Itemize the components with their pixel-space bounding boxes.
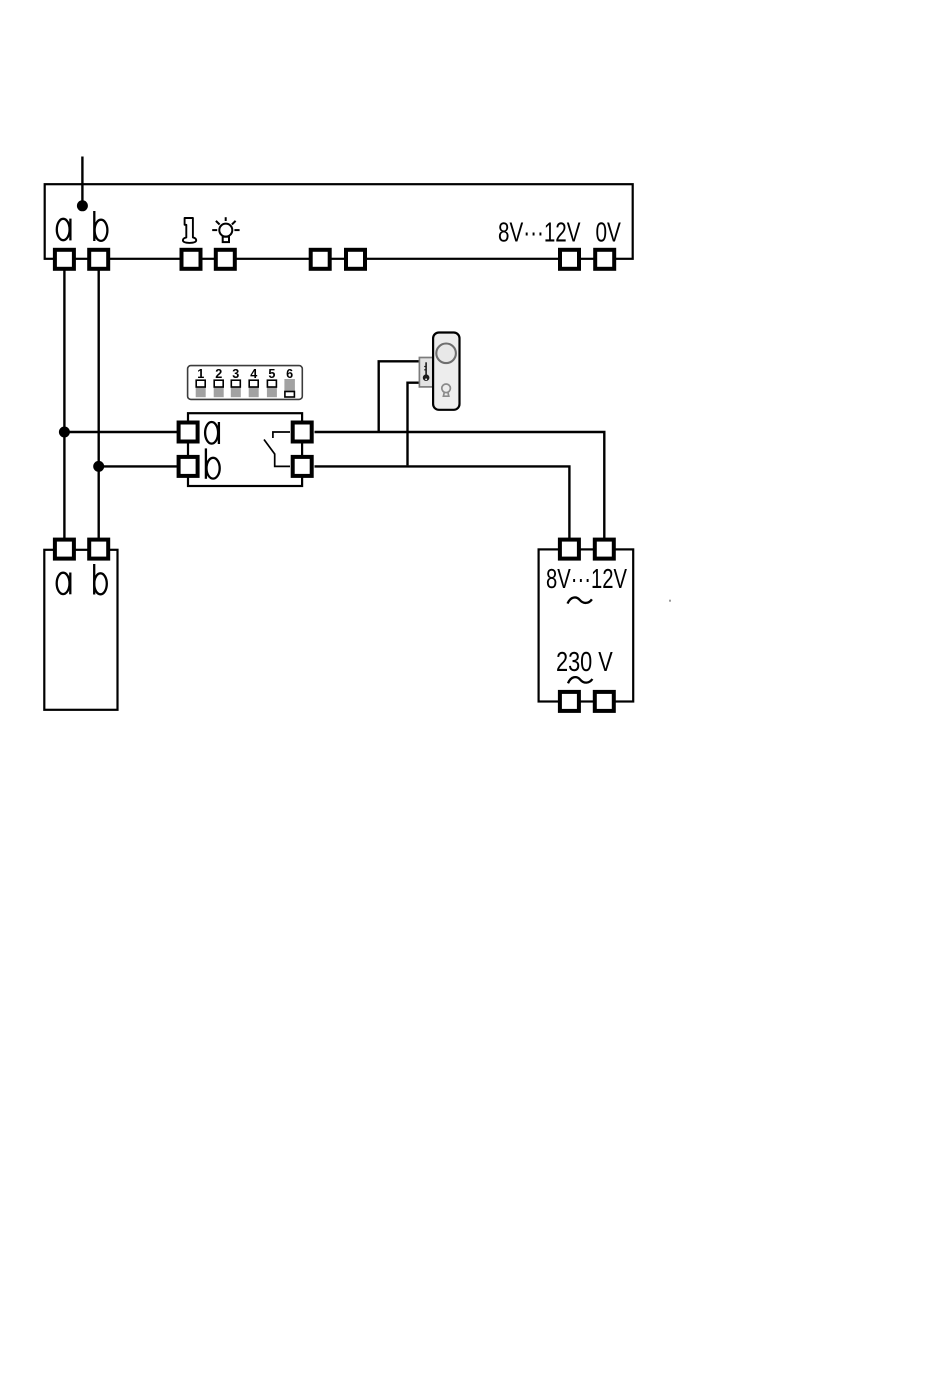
terminal 0V of U1 [595, 250, 614, 269]
DIP switch 4 slider (up) [249, 380, 259, 397]
terminal 4 of U1 (lamp) [216, 250, 235, 269]
svg-text:2: 2 [215, 367, 222, 381]
relay terminal b (left bottom) [179, 457, 198, 476]
wire: net b to relay terminal b [99, 465, 180, 467]
indoor station terminal b [89, 540, 108, 559]
svg-text:0V: 0V [596, 217, 622, 248]
svg-text:5: 5 [268, 367, 275, 381]
label a (U1) [57, 219, 71, 241]
terminal 8V...12V of U1 [560, 250, 579, 269]
lamp icon above terminal 4 [212, 217, 239, 242]
terminal 3 of U1 (thermometer) [182, 250, 201, 269]
wire: net a to relay terminal a [64, 431, 180, 433]
DIP switch 1 slider (up) [196, 380, 206, 397]
bell push button circle [436, 344, 456, 364]
svg-text:4: 4 [250, 367, 257, 381]
svg-text:6: 6 [286, 367, 293, 381]
wire: relay NO to transformer 12V [315, 432, 605, 539]
AC tilde secondary [568, 597, 592, 603]
label b (U1) [94, 211, 107, 241]
DIP switch block S1 [188, 366, 303, 400]
transformer terminal 230V left (bottom) [560, 692, 579, 711]
indoor station (bottom left box) [44, 550, 117, 710]
transformer terminal 12V (top right) [595, 540, 614, 559]
label b (indoor station) [94, 564, 107, 595]
wire: bell push top tap [379, 361, 420, 431]
junction dot on a-wire inside U1 [77, 200, 88, 211]
relay terminal COM (right bottom) [293, 457, 312, 476]
svg-text:230 V: 230 V [556, 646, 613, 677]
relay terminal a (left top) [179, 423, 198, 442]
stray speck [669, 600, 671, 602]
wire: net a vertical (U1 to indoor station) [63, 271, 65, 539]
svg-text:8V···12V: 8V···12V [498, 217, 581, 248]
relay internal switch contact [264, 432, 290, 466]
bell push S2 side tab [419, 358, 432, 387]
junction dot net b [93, 461, 104, 472]
wire: bell push bottom tap [408, 383, 421, 466]
bell push keyhole [442, 384, 451, 396]
label b (relay) [206, 448, 220, 478]
svg-text:1: 1 [197, 367, 204, 381]
transformer terminal 8V (top left) [560, 540, 579, 559]
terminal b of U1 [89, 250, 108, 269]
bus controller U1 (top module) [45, 184, 633, 259]
wire: net b vertical (U1 to indoor station) [97, 271, 99, 539]
transformer terminal 230V right (bottom) [595, 692, 614, 711]
AC tilde primary [568, 677, 592, 683]
relay terminal NO (right top) [293, 423, 312, 442]
terminal 5 of U1 [311, 250, 330, 269]
svg-text:3: 3 [232, 367, 239, 381]
terminal a of U1 [55, 250, 74, 269]
indoor station terminal a [55, 540, 74, 559]
junction dot net a [59, 427, 70, 438]
thermometer icon above terminal 3 [183, 218, 196, 243]
svg-text:8V···12V: 8V···12V [546, 563, 627, 594]
wire: antenna drop into bus controller [81, 157, 83, 207]
terminal 6 of U1 [346, 250, 365, 269]
label a (relay) [205, 422, 219, 444]
DIP switch 6 slider (down) [284, 379, 295, 397]
transformer T1 [539, 549, 634, 701]
relay module K1 [188, 413, 302, 486]
DIP switch 2 slider (up) [214, 380, 224, 397]
key icon in tab [423, 362, 430, 381]
DIP switch 5 slider (up) [267, 380, 277, 397]
wire: relay COM to transformer 8V [315, 466, 570, 538]
label a (indoor station) [57, 573, 71, 595]
DIP switch 3 slider (up) [231, 380, 241, 397]
bell push S2 body [433, 333, 459, 410]
